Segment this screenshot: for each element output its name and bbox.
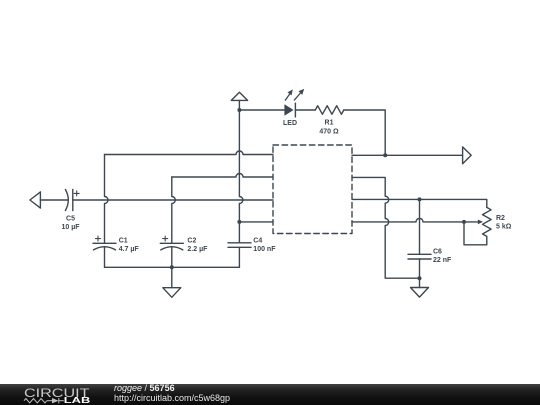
svg-text:2.2 µF: 2.2 µF [187, 246, 208, 253]
svg-text:5 kΩ: 5 kΩ [496, 224, 512, 231]
svg-text:C2: C2 [187, 238, 196, 245]
svg-text:LED: LED [283, 120, 297, 127]
svg-text:470 Ω: 470 Ω [319, 128, 339, 135]
svg-text:LAB: LAB [64, 395, 91, 405]
svg-text:C4: C4 [253, 238, 262, 245]
svg-text:22 nF: 22 nF [433, 257, 452, 264]
svg-text:C1: C1 [119, 238, 128, 245]
svg-text:R2: R2 [496, 215, 505, 222]
svg-text:C6: C6 [433, 248, 442, 255]
svg-text:4.7 µF: 4.7 µF [119, 246, 140, 253]
svg-text:R1: R1 [325, 120, 334, 127]
svg-text:100 nF: 100 nF [253, 246, 276, 253]
